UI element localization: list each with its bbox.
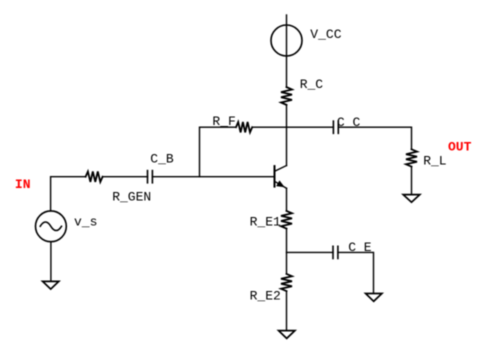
resistor R_E2 — [281, 274, 292, 291]
svg-text:R_E2: R_E2 — [250, 288, 281, 303]
wire — [252, 126, 333, 128]
svg-text:R_C: R_C — [300, 77, 324, 92]
wire — [286, 56, 288, 87]
resistor R_E1 — [281, 211, 292, 229]
source v_s — [36, 211, 67, 242]
wire — [286, 229, 288, 274]
resistor R_C — [281, 87, 292, 105]
svg-text:V_CC: V_CC — [310, 27, 341, 42]
wire — [51, 177, 86, 211]
ground — [403, 195, 420, 203]
ground — [279, 331, 295, 339]
source V_CC — [271, 25, 302, 56]
svg-text:v_s: v_s — [74, 215, 97, 230]
ground — [366, 294, 382, 302]
wire — [200, 127, 237, 176]
wire — [286, 188, 288, 211]
wire — [50, 242, 52, 282]
svg-text:OUT: OUT — [448, 140, 472, 155]
wire — [286, 291, 288, 330]
capacitor C_B — [148, 171, 153, 183]
resistor R_GEN — [86, 172, 103, 182]
wire — [103, 176, 148, 178]
wire — [411, 167, 413, 195]
resistor R_F — [236, 122, 252, 132]
capacitor C_E — [333, 246, 338, 258]
svg-text:R_GEN: R_GEN — [112, 189, 151, 204]
capacitor C_C — [333, 121, 338, 133]
wire — [338, 252, 374, 293]
wire — [152, 176, 274, 178]
svg-text:R_L: R_L — [423, 154, 446, 169]
wire — [338, 127, 411, 149]
svg-text:C_B: C_B — [150, 152, 174, 167]
resistor R_L — [406, 149, 417, 166]
wire — [286, 15, 288, 25]
wire — [286, 105, 288, 166]
wire — [287, 251, 334, 253]
transistor Q1 — [275, 166, 287, 189]
ground — [43, 281, 59, 289]
svg-text:R_F: R_F — [212, 114, 235, 129]
svg-text:IN: IN — [15, 177, 31, 192]
svg-text:R_E1: R_E1 — [250, 214, 281, 229]
